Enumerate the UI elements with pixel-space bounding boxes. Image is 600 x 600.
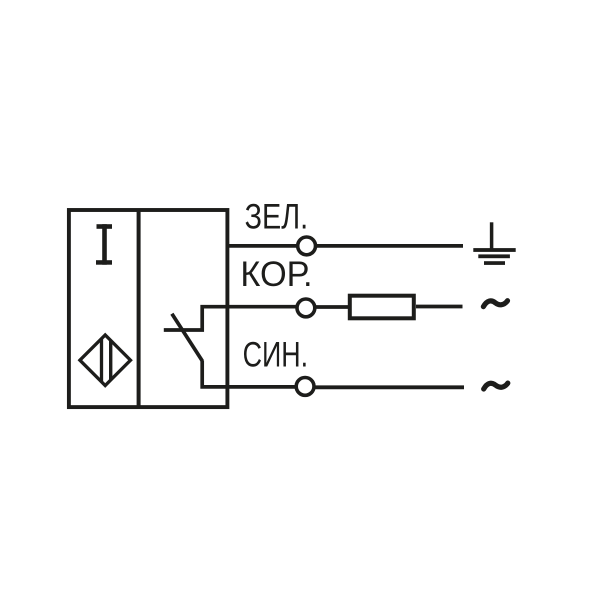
sensor diamond symbol outline <box>80 335 131 386</box>
wire SIN from switch pivot to terminal <box>202 361 296 387</box>
wire resistor to AC <box>416 305 463 309</box>
wire SIN terminal to AC <box>314 385 464 389</box>
AC source tilde SIN row <box>484 383 508 389</box>
terminal circle ZEL <box>298 237 316 255</box>
terminal circle SIN <box>296 378 314 396</box>
ground stem <box>490 222 494 249</box>
sensor body outer box <box>69 210 228 407</box>
diamond inner stripe left <box>100 334 103 386</box>
resistor R <box>350 296 414 319</box>
switch movable arm <box>172 314 203 362</box>
inductive symbol I top serif <box>97 224 113 229</box>
wire KOR from switch to terminal with riser and fixed contact line <box>164 307 297 330</box>
svg-text:СИН.: СИН. <box>243 334 309 374</box>
ground bar 2 <box>478 254 510 258</box>
wire KOR terminal to resistor <box>315 305 349 309</box>
sensor body divider <box>137 210 141 407</box>
svg-text:ЗЕЛ.: ЗЕЛ. <box>245 197 309 237</box>
wire ZEL from box to terminal <box>228 244 297 248</box>
AC source tilde KOR row <box>483 301 507 307</box>
wire ZEL from terminal to ground <box>316 244 463 248</box>
inductive symbol I bottom serif <box>96 260 112 265</box>
inductive symbol I stem <box>102 224 107 265</box>
svg-text:КОР.: КОР. <box>240 254 312 294</box>
terminal circle KOR <box>297 299 315 317</box>
diamond inner stripe right <box>109 334 112 386</box>
ground bar 1 <box>473 248 515 252</box>
ground bar 3 <box>484 261 505 265</box>
